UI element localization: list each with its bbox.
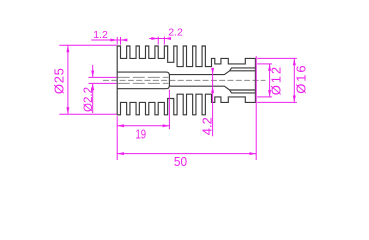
svg-text:50: 50 xyxy=(174,155,187,169)
hidden bore line top (Ø2.2) xyxy=(118,76,169,78)
dimension 19 (cavity depth) xyxy=(117,90,169,130)
dimension 4.2 (bore) xyxy=(211,68,214,136)
hidden bore line bottom (Ø2.2) xyxy=(118,82,169,84)
dimension 1.2 (fin width) xyxy=(91,37,127,45)
heatsink outer profile with fins xyxy=(117,46,255,115)
bore Ø4.2 upper line with chamfer to Ø7 counterbore xyxy=(169,71,255,75)
svg-text:19: 19 xyxy=(136,127,147,141)
dimension Ø25 (fin diameter) xyxy=(59,45,117,114)
svg-text:Ø25: Ø25 xyxy=(52,68,67,94)
counterbore Ø9.2 upper line xyxy=(230,68,256,71)
svg-text:Ø12: Ø12 xyxy=(268,67,283,95)
svg-text:4.2: 4.2 xyxy=(200,117,214,135)
svg-text:1.2: 1.2 xyxy=(93,29,108,41)
centerline xyxy=(103,79,266,81)
svg-text:Ø16: Ø16 xyxy=(294,65,309,93)
dimension Ø2.2 (small bore) xyxy=(89,65,117,113)
svg-text:Ø2.2: Ø2.2 xyxy=(81,87,95,112)
dimension 50 (overall length) xyxy=(117,56,256,160)
internal cavity Ø6 with rounded end xyxy=(117,72,169,89)
bore Ø4.2 lower line with chamfer to Ø7 counterbore xyxy=(169,86,255,90)
dimension Ø12 (groove diameter) xyxy=(257,64,272,97)
dimension 2.2 (slot width) xyxy=(149,37,171,45)
counterbore Ø9.2 lower line xyxy=(230,90,256,93)
dimension Ø16 (flange diameter) xyxy=(257,58,297,102)
svg-text:2.2: 2.2 xyxy=(168,26,183,38)
